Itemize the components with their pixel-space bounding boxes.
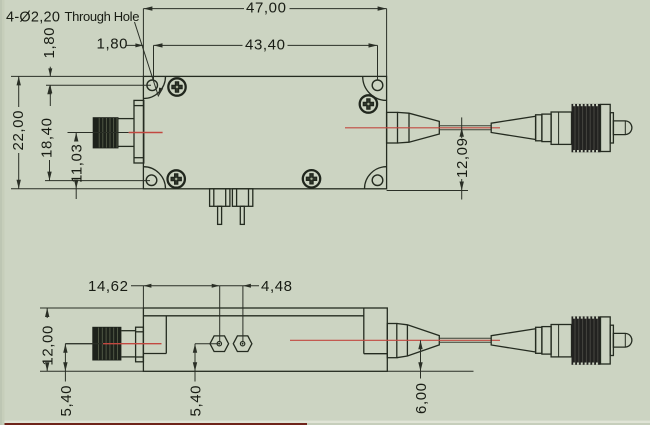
fiber lines (side view) [439,337,491,339]
dim line 14,62 / 4,48 [131,285,220,287]
svg-text:1,80: 1,80 [41,27,58,59]
extension lines left [11,75,143,77]
SMA neck [119,118,135,120]
svg-text:4,48: 4,48 [261,278,293,295]
pin block left [210,189,230,207]
corner arc bottom-right [365,167,387,189]
FC knurled nut (top view) [572,104,601,152]
svg-text:47,00: 47,00 [246,0,287,17]
arrowheads side view [45,284,423,372]
svg-text:4-Ø2,20: 4-Ø2,20 [6,10,60,26]
svg-text:18,40: 18,40 [39,117,56,158]
FC boot side [491,329,535,352]
svg-text:11,03: 11,03 [69,144,86,183]
dim 5,40 middle [194,344,196,382]
through hole top-left [147,80,158,91]
SMA connector top view [119,100,144,163]
through hole top-right [372,80,383,91]
extensions down [142,286,144,308]
svg-text:Through Hole: Through Hole [65,9,140,24]
svg-text:22,00: 22,00 [10,110,27,151]
FC connector (side view) [491,325,571,357]
centerline black SMA [68,132,129,134]
FC flange side [601,317,611,364]
dim 11,03 line [75,133,77,142]
hex screw 1 (side view) [210,336,229,352]
dim 6,00 [420,340,422,378]
screw bottom-left [168,170,185,187]
SMA threaded barrel [93,117,119,148]
fiber lines (top view) [439,125,491,127]
pin block right [232,189,252,207]
hex screw 2 (side view) [233,336,252,352]
svg-text:1,80: 1,80 [97,36,129,53]
svg-text:5,40: 5,40 [58,385,75,417]
through hole bottom-left [146,175,157,186]
dim 18,40 line [49,160,51,181]
FC neck [610,113,613,143]
FC boot [491,116,535,139]
module body outline [143,76,386,188]
side body internal top line [143,315,363,317]
svg-text:6,00: 6,00 [413,382,430,414]
FC neck side [610,325,613,355]
pin left [218,206,222,224]
corner arc top-left [143,76,165,98]
FC collar A side [536,327,542,353]
FC body [551,112,571,144]
leader Through Hole [135,22,159,97]
FC collar B [542,114,551,142]
FC connector (top view) [491,112,571,144]
svg-text:12,09: 12,09 [454,137,471,178]
centerline red SMA side [103,343,162,345]
FC knurled nut (side view) [572,316,601,364]
SMA side view [121,327,143,362]
dim 22,00 line [18,76,20,107]
screw bottom-middle [303,170,320,187]
svg-text:5,40: 5,40 [188,385,205,417]
arrowheads top view [17,6,464,190]
fiber boot at body exit (top view) [387,112,440,143]
pin right [240,206,244,224]
fiber red centerline (top view) [345,127,500,129]
FC body side [551,325,571,357]
centerline red SMA [129,132,163,134]
FC collar A [536,115,542,141]
dim 47,00 [143,8,244,10]
fiber red centerline (side view) [290,339,500,341]
corner arc bottom-left [143,167,165,189]
box bottom extension right [387,370,473,372]
through hole bottom-right [372,175,383,186]
SMA flange side [136,327,144,362]
svg-text:12,00: 12,00 [40,325,57,366]
FC collar B side [542,327,551,355]
centerline black SMA side [65,343,103,345]
SMA neck side [121,330,135,332]
extension lines top [142,9,144,77]
screw top-left [168,78,185,95]
screw top-right [360,95,377,112]
svg-text:43,40: 43,40 [245,37,286,54]
dim 1,80 horizontal leader [127,44,144,46]
box bottom extension left [40,370,143,372]
side inner-left block [165,316,167,354]
svg-text:14,62: 14,62 [88,278,129,295]
SMA flange plate [134,100,144,163]
dim 1,80 vertical [49,67,51,77]
side body outline [143,308,387,371]
fiber boot side view [387,324,439,358]
left edge shading [0,0,2,425]
dim 12,00 [40,307,143,309]
corner arc top-right [363,76,387,100]
pin header blocks under body [210,189,253,225]
dim 12,09 [461,117,463,138]
side inner-right block [363,308,365,354]
FC ferrule [613,121,632,135]
SMA barrel side [92,327,121,361]
bottom window border strip [0,421,650,423]
dim 5,40 left [64,344,66,382]
FC ferrule side [613,333,632,347]
dim 43,40 [154,44,243,46]
FC flange [601,104,611,151]
